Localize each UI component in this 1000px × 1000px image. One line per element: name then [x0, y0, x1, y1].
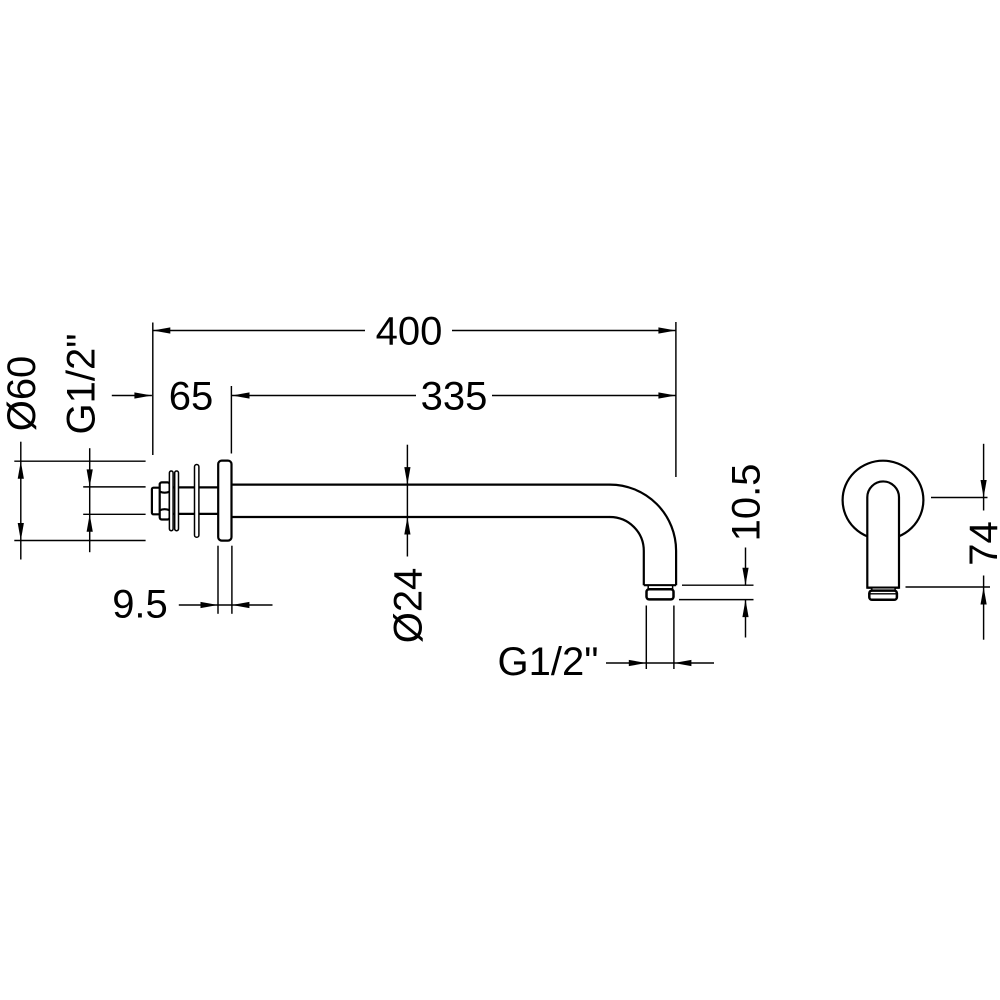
extension line right end: [675, 322, 677, 477]
svg-text:400: 400: [376, 310, 443, 354]
9.5 dimension (outside arrows): [179, 602, 273, 608]
escutcheon plate edge: [195, 465, 199, 538]
svg-text:G1/2": G1/2": [60, 334, 104, 435]
74 leader lines: [931, 497, 988, 499]
svg-text:74: 74: [962, 521, 1000, 566]
9.5 extension lines: [217, 546, 219, 614]
O60 dimension line: [18, 442, 24, 560]
threaded pipe into wall: [168, 487, 218, 514]
front cap inner line: [871, 593, 897, 595]
G1/2 inlet extension lines: [83, 486, 145, 488]
bend inner curve: [610, 517, 644, 585]
G1/2 inlet dimension line: [87, 448, 93, 552]
shower arm tube bottom line: [232, 516, 610, 518]
front view tube: [867, 481, 899, 587]
10.5 label: [724, 464, 768, 542]
G1/2 inlet label: [60, 334, 104, 435]
G1/2 outlet extension lines: [645, 606, 647, 670]
G1/2 outlet dimension (outside arrows): [606, 660, 714, 666]
outlet cap lip (side view): [648, 585, 672, 589]
svg-text:335: 335: [421, 374, 488, 418]
10.5 dimension arrows: [742, 548, 748, 638]
washer 2: [175, 471, 179, 531]
svg-text:9.5: 9.5: [112, 583, 168, 627]
bend outer curve: [610, 485, 676, 586]
front cap lip: [872, 588, 895, 591]
svg-text:65: 65: [169, 374, 214, 418]
front view tube bottom edge: [867, 586, 899, 588]
svg-text:Ø24: Ø24: [387, 568, 431, 644]
74 dimension line: [981, 444, 987, 640]
65 dimension (outside arrow): [112, 392, 152, 398]
O60 label: [0, 356, 44, 432]
tube outlet bottom edge: [644, 584, 676, 586]
nut: [160, 482, 170, 519]
10.5 leader lines: [682, 584, 754, 586]
extension line left of 400: [152, 323, 154, 456]
svg-text:G1/2": G1/2": [498, 640, 599, 684]
outlet cap (side view): [647, 589, 674, 599]
extension line at flange face: [230, 386, 232, 454]
wall flange: [218, 461, 231, 541]
washer 1: [169, 471, 173, 531]
svg-text:10.5: 10.5: [724, 464, 768, 542]
shower arm tube top line: [232, 484, 610, 486]
O24 label: [387, 568, 431, 644]
svg-text:Ø60: Ø60: [0, 356, 44, 432]
400 dimension line: [153, 327, 676, 333]
front view flange circle: [843, 461, 924, 540]
front cap: [869, 591, 897, 600]
pipe stub end: [152, 488, 160, 515]
O24 dimension (outside arrows through tube): [404, 445, 410, 557]
O60 extension lines: [14, 460, 145, 462]
335 dimension line: [232, 392, 676, 398]
74 label: [962, 521, 1000, 566]
